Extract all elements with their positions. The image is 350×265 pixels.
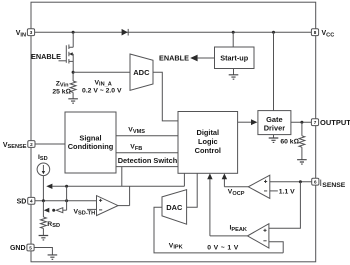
svg-text:Control: Control: [195, 146, 221, 155]
svg-text:SD: SD: [17, 198, 27, 205]
svg-text:VIN: VIN: [16, 30, 26, 38]
svg-text:5: 5: [29, 245, 32, 250]
svg-text:Logic: Logic: [198, 137, 218, 146]
svg-text:RSD: RSD: [47, 221, 60, 229]
svg-text:1.1 V: 1.1 V: [279, 189, 295, 196]
svg-text:4: 4: [30, 199, 33, 204]
svg-text:OUTPUT: OUTPUT: [320, 118, 350, 127]
svg-text:6: 6: [314, 180, 317, 185]
svg-text:ENABLE: ENABLE: [159, 54, 189, 63]
svg-text:VFB: VFB: [130, 144, 142, 152]
svg-text:ZVin: ZVin: [56, 80, 69, 88]
svg-text:VVMS: VVMS: [128, 127, 145, 135]
svg-text:Start-up: Start-up: [220, 54, 249, 63]
svg-text:25 kΩ: 25 kΩ: [52, 89, 70, 96]
svg-text:VIPK: VIPK: [169, 242, 183, 250]
svg-text:0 V ~ 1 V: 0 V ~ 1 V: [207, 245, 238, 252]
svg-text:Conditioning: Conditioning: [68, 142, 114, 151]
svg-text:DAC: DAC: [166, 203, 183, 212]
svg-text:ADC: ADC: [133, 68, 150, 77]
svg-text:SENSE: SENSE: [322, 182, 346, 189]
svg-text:7: 7: [314, 120, 317, 125]
svg-text:60 kΩ: 60 kΩ: [280, 139, 298, 146]
svg-text:VSENSE: VSENSE: [3, 142, 27, 150]
svg-text:Driver: Driver: [264, 124, 285, 133]
svg-text:8: 8: [314, 30, 317, 35]
svg-text:0.2 V ~ 2.0 V: 0.2 V ~ 2.0 V: [82, 87, 122, 94]
svg-text:VOCP: VOCP: [228, 189, 245, 197]
svg-text:2: 2: [30, 142, 33, 147]
svg-text:IPEAK: IPEAK: [230, 225, 247, 233]
svg-text:GND: GND: [10, 245, 26, 252]
svg-text:Digital: Digital: [197, 128, 220, 137]
svg-text:ENABLE: ENABLE: [31, 52, 61, 61]
svg-text:Detection Switch: Detection Switch: [118, 156, 178, 165]
svg-text:ISD: ISD: [38, 154, 48, 162]
svg-text:3: 3: [30, 30, 33, 35]
svg-text:VCC: VCC: [322, 30, 335, 38]
